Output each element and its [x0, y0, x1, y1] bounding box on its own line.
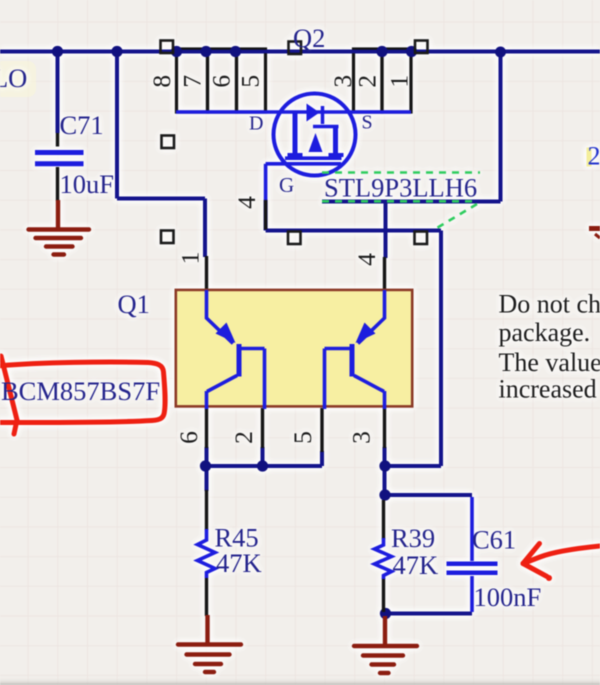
svg-text:The values: The values — [499, 348, 600, 377]
svg-text:4: 4 — [352, 253, 381, 266]
svg-text:increased t: increased t — [499, 375, 600, 404]
svg-text:G: G — [279, 173, 294, 197]
svg-text:1: 1 — [384, 75, 413, 88]
svg-text:2: 2 — [229, 431, 258, 444]
svg-text:Q2: Q2 — [293, 23, 325, 53]
svg-text:STL9P3LLH6: STL9P3LLH6 — [324, 173, 477, 203]
svg-text:D: D — [249, 113, 263, 135]
svg-text:5: 5 — [236, 75, 265, 88]
svg-text:10uF: 10uF — [60, 169, 115, 199]
svg-text:6: 6 — [174, 431, 203, 444]
svg-text:5: 5 — [288, 431, 317, 444]
svg-text:C71: C71 — [60, 110, 104, 140]
svg-text:4: 4 — [232, 196, 261, 209]
svg-text:Do not cha: Do not cha — [499, 290, 600, 319]
svg-text:2: 2 — [588, 142, 600, 171]
svg-text:package.: package. — [499, 318, 591, 347]
svg-text:2: 2 — [353, 75, 382, 88]
svg-text:LO: LO — [0, 63, 27, 93]
svg-text:Q1: Q1 — [118, 289, 150, 319]
svg-text:R39: R39 — [391, 523, 435, 553]
svg-text:1: 1 — [176, 252, 205, 265]
svg-text:C61: C61 — [472, 525, 516, 555]
svg-text:3: 3 — [347, 431, 376, 444]
svg-text:6: 6 — [207, 75, 236, 88]
svg-text:BCM857BS7F: BCM857BS7F — [1, 376, 160, 406]
svg-text:47K: 47K — [393, 550, 439, 580]
svg-text:100nF: 100nF — [474, 582, 542, 612]
svg-text:47K: 47K — [216, 548, 262, 578]
svg-text:8: 8 — [147, 75, 176, 88]
svg-text:S: S — [362, 112, 373, 134]
svg-text:7: 7 — [177, 75, 206, 88]
